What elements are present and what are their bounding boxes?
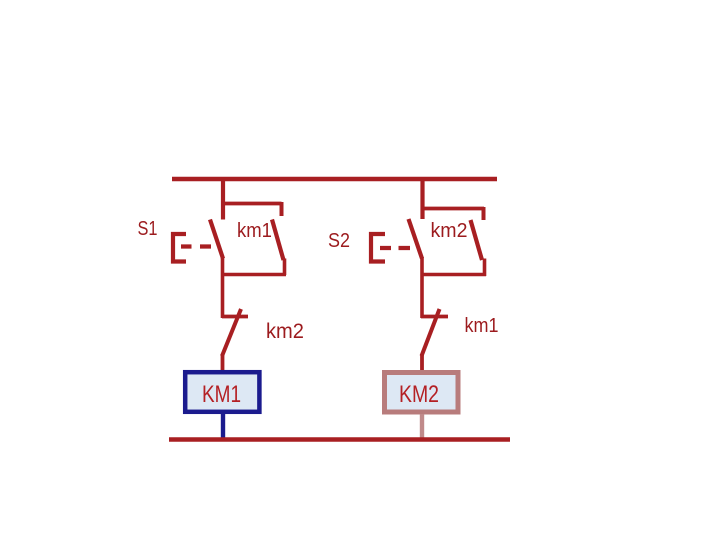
contact km1 (NC interlock) blade [422,309,440,356]
bottom supply bus [169,437,510,442]
svg-text:S2: S2 [328,230,350,252]
wire: km2 hold-in branch upper right vertical [482,207,486,220]
pushbutton S1 actuator bracket [173,234,186,262]
wire: km2 hold-in branch lower right vertical [483,259,487,277]
pushbutton S2 dashed link [380,246,410,250]
pushbutton S2 actuator bracket [371,234,385,262]
wire: coil KM2 to bottom bus (rose) [420,414,424,441]
coil KM2 box [385,373,459,413]
svg-text:km2: km2 [431,220,468,242]
contact km2 (NC interlock) blade [222,309,241,356]
contact km2 (NC interlock) terminal tick [222,315,248,319]
wire: km2 hold-in branch bottom horizontal [421,273,486,277]
wire: into coil KM2 [420,354,424,371]
wire: km1 hold-in branch lower right vertical [283,259,287,276]
top supply bus [172,177,497,182]
wire: right branch middle vertical [420,257,424,318]
wire: km2 hold-in branch top horizontal [421,207,485,211]
svg-text:KM2: KM2 [399,381,439,408]
svg-text:km1: km1 [465,314,499,337]
pushbutton S1 dashed link [181,244,211,248]
wire: km1 hold-in branch top horizontal [221,202,282,206]
wire: into coil KM1 [221,354,225,371]
contact km2 (NO hold-in) blade [471,220,483,260]
svg-text:KM1: KM1 [202,381,241,408]
wire: km1 hold-in branch bottom horizontal [222,273,287,277]
svg-text:km2: km2 [266,320,304,343]
coil KM1 box [185,372,259,412]
svg-text:km1: km1 [237,220,272,242]
wire: right branch drop from top bus [420,177,424,219]
pushbutton S2 NO contact blade [409,219,423,259]
svg-text:S1: S1 [138,218,158,240]
pushbutton S1 NO contact blade [210,220,223,259]
contact km1 (NC interlock) terminal tick [421,315,448,319]
wire: left branch middle vertical [221,257,225,318]
wire: coil KM1 to bottom bus (blue) [221,414,225,441]
contact km1 (NO hold-in) blade [272,220,284,261]
wire: left branch drop from top bus [221,177,225,220]
wire: km1 hold-in branch upper right vertical [280,202,284,216]
